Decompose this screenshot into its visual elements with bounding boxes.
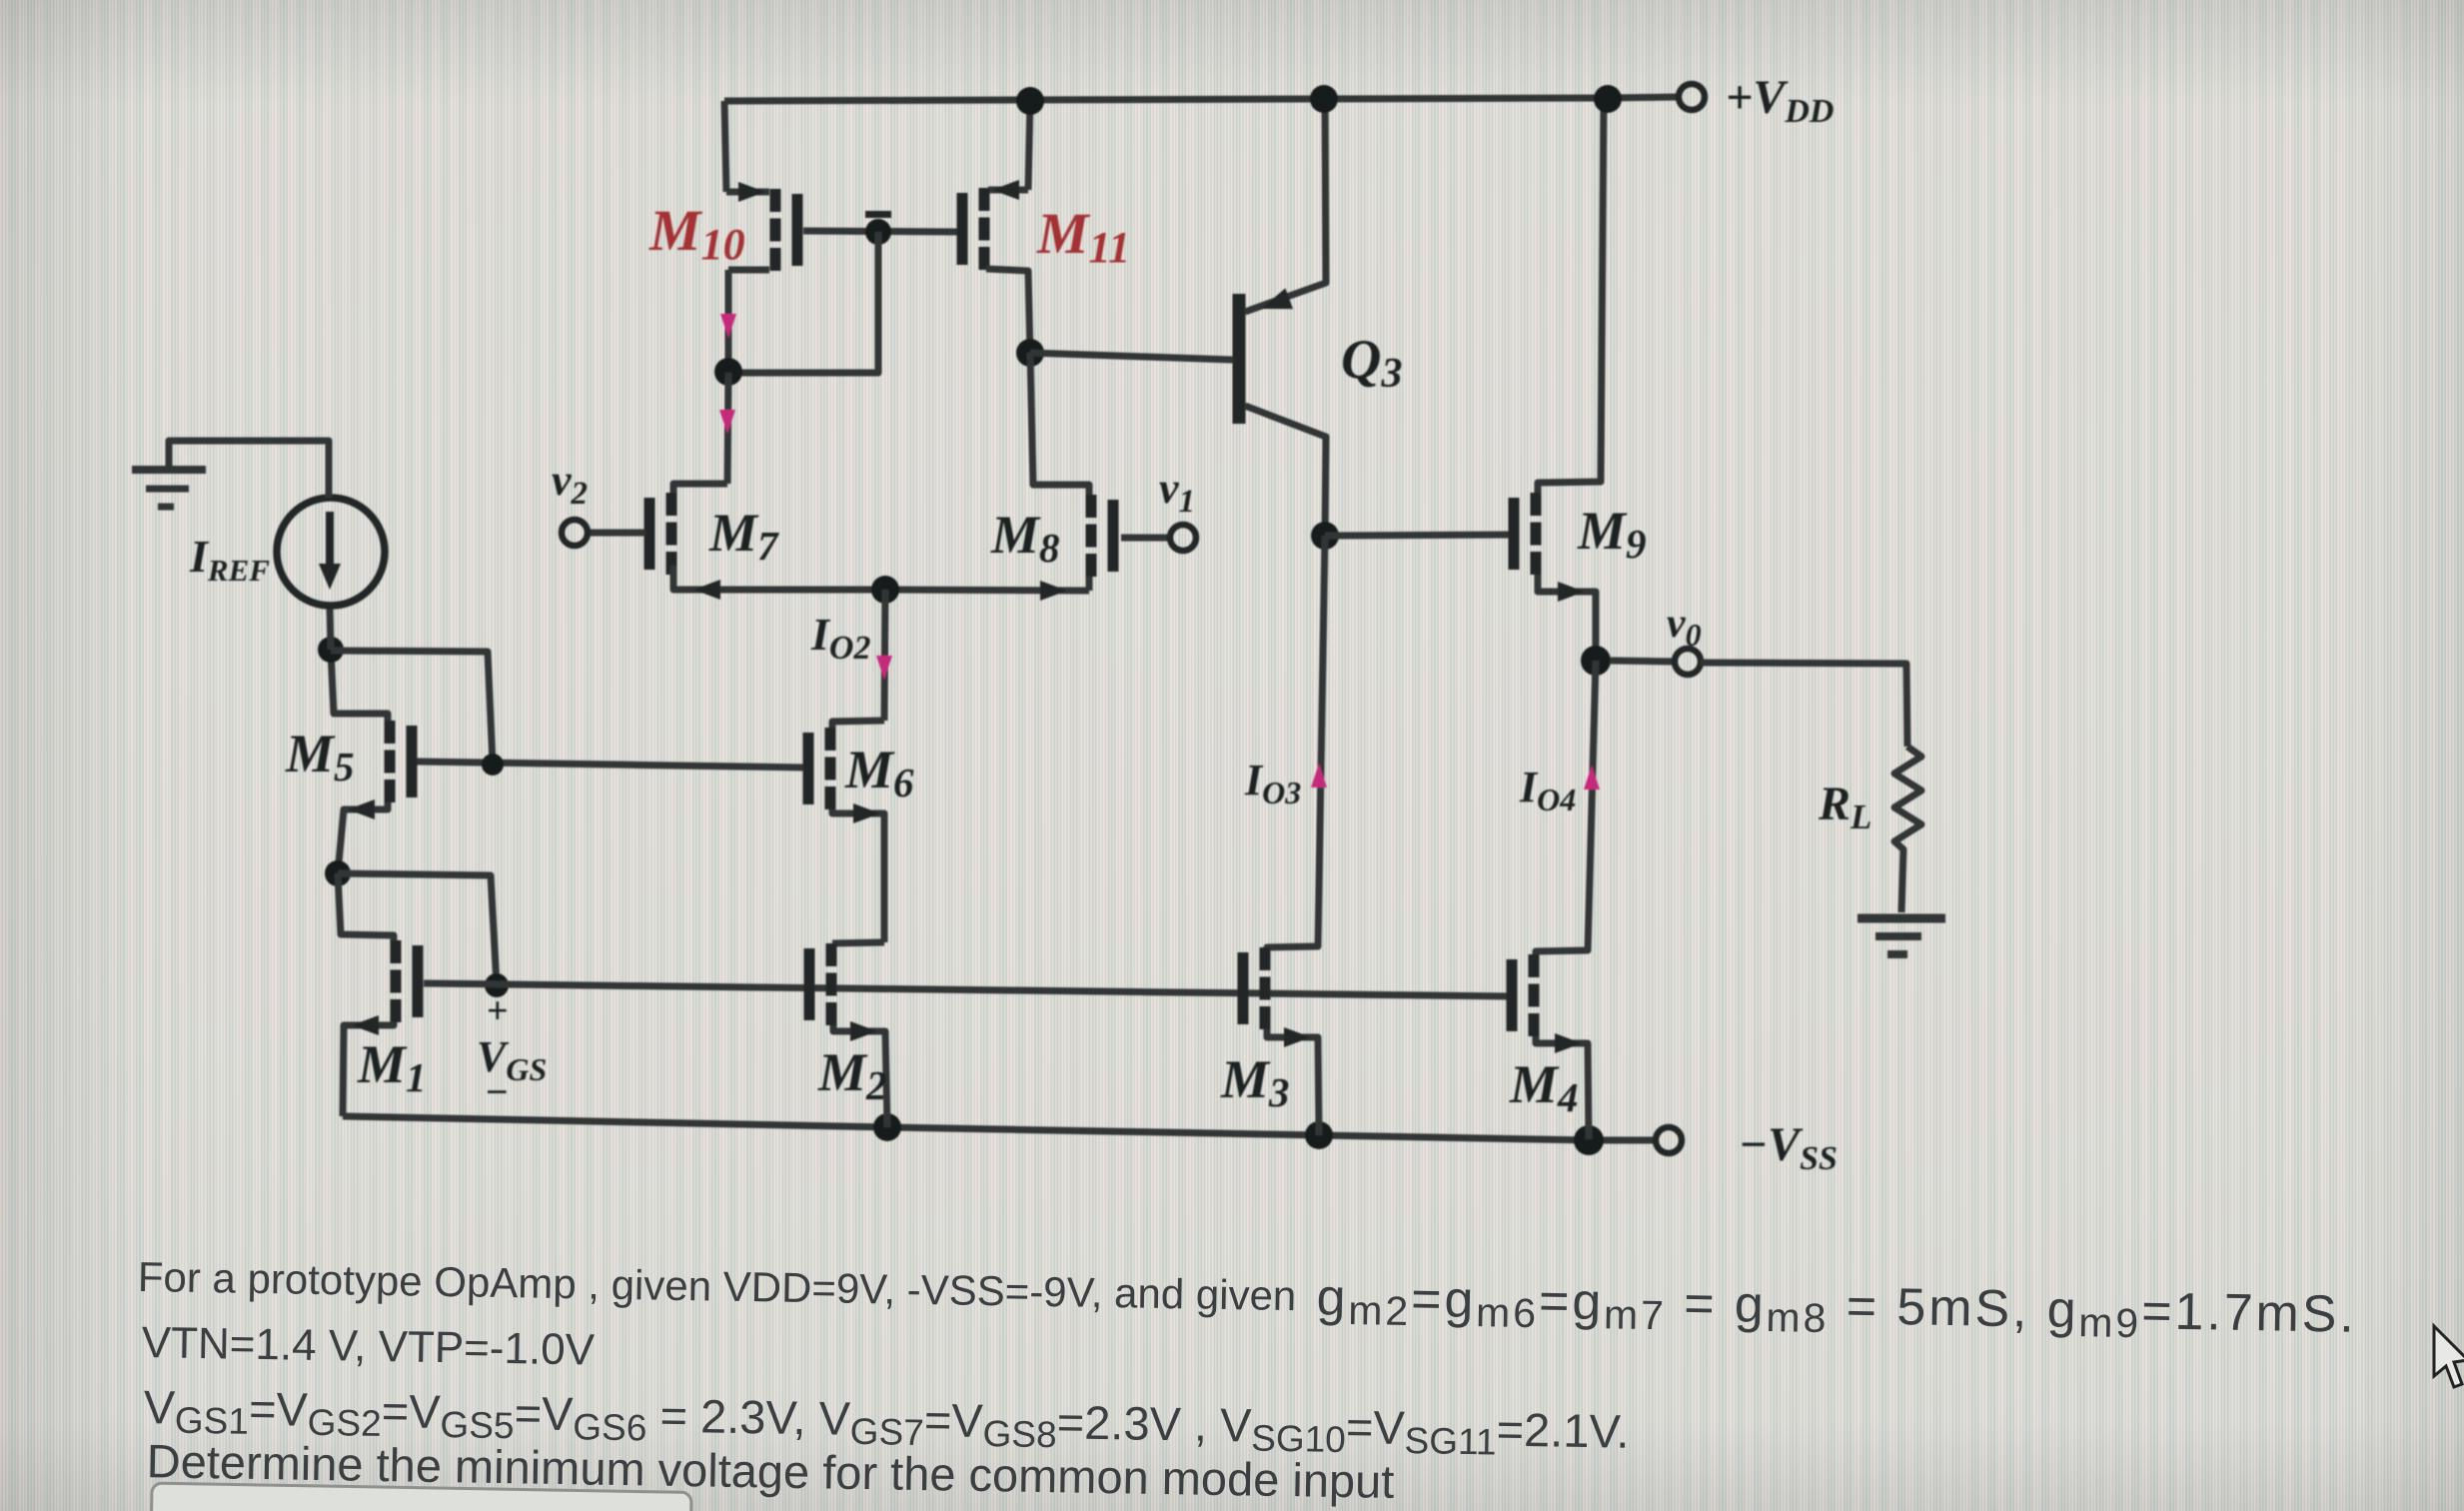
svg-text:M5: M5	[285, 724, 355, 789]
svg-text:M4: M4	[1509, 1054, 1579, 1120]
svg-text:M9: M9	[1577, 501, 1647, 567]
svg-text:v2: v2	[552, 456, 588, 512]
svg-text:M10: M10	[648, 198, 745, 269]
svg-text:For a prototype OpAmp , given: For a prototype OpAmp , given VDD=9V, -V…	[137, 1253, 1296, 1319]
svg-text:gm2​=gm6​=gm7​ = gm8​ = 5mS, g: gm2​=gm6​=gm7​ = gm8​ = 5mS, gm9​=1.7mS.	[1316, 1269, 2357, 1350]
svg-text:IREF: IREF	[189, 531, 270, 588]
svg-text:−VSS: −VSS	[1739, 1118, 1838, 1177]
svg-text:M11: M11	[1036, 201, 1130, 272]
svg-text:M7: M7	[708, 503, 779, 569]
svg-text:M6: M6	[844, 740, 914, 805]
svg-text:M3: M3	[1220, 1049, 1290, 1115]
svg-text:−: −	[486, 1069, 509, 1114]
svg-text:IO4: IO4	[1519, 762, 1576, 817]
svg-text:RL: RL	[1818, 777, 1871, 836]
svg-text:IO2: IO2	[810, 609, 870, 667]
svg-text:M2: M2	[817, 1042, 887, 1108]
svg-text:+VDD: +VDD	[1726, 71, 1834, 130]
svg-text:IO3: IO3	[1244, 755, 1301, 810]
svg-text:Q3: Q3	[1341, 329, 1402, 397]
svg-text:v1: v1	[1159, 464, 1195, 520]
svg-text:v0: v0	[1667, 601, 1702, 653]
svg-text:VTN=1.4 V, VTP=-1.0V: VTN=1.4 V, VTP=-1.0V	[141, 1318, 596, 1375]
svg-text:M8: M8	[990, 505, 1060, 571]
svg-text:+: +	[487, 990, 509, 1032]
svg-text:M1: M1	[357, 1034, 427, 1100]
